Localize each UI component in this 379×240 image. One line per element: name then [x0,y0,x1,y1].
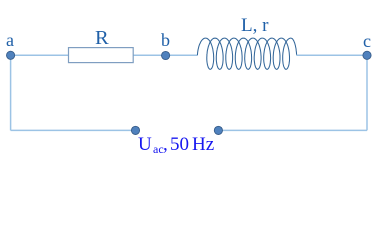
wire top: coil to node c [296,54,367,56]
wire bottom right segment [218,129,367,131]
resistor R body [69,48,134,63]
label L, r [241,15,268,37]
node b dot [162,51,170,59]
node c dot [363,51,371,59]
wire bottom left segment [11,129,136,131]
node a dot [7,51,15,59]
label ac subscript [153,142,164,157]
source terminal dot left [131,126,139,134]
label U [138,134,152,156]
wire top: resistor to coil (through node b) [133,54,197,56]
source terminal dot right [214,126,222,134]
label 50 [170,134,189,156]
label R [95,27,109,50]
inductor L,r coil [197,38,296,69]
wire right vertical [366,55,368,130]
label comma [163,134,168,156]
label Hz [192,134,214,156]
label c [363,31,371,52]
wire top: node a to resistor [11,54,69,56]
label b [161,30,170,51]
wire left vertical [10,55,12,130]
label a [6,30,14,51]
